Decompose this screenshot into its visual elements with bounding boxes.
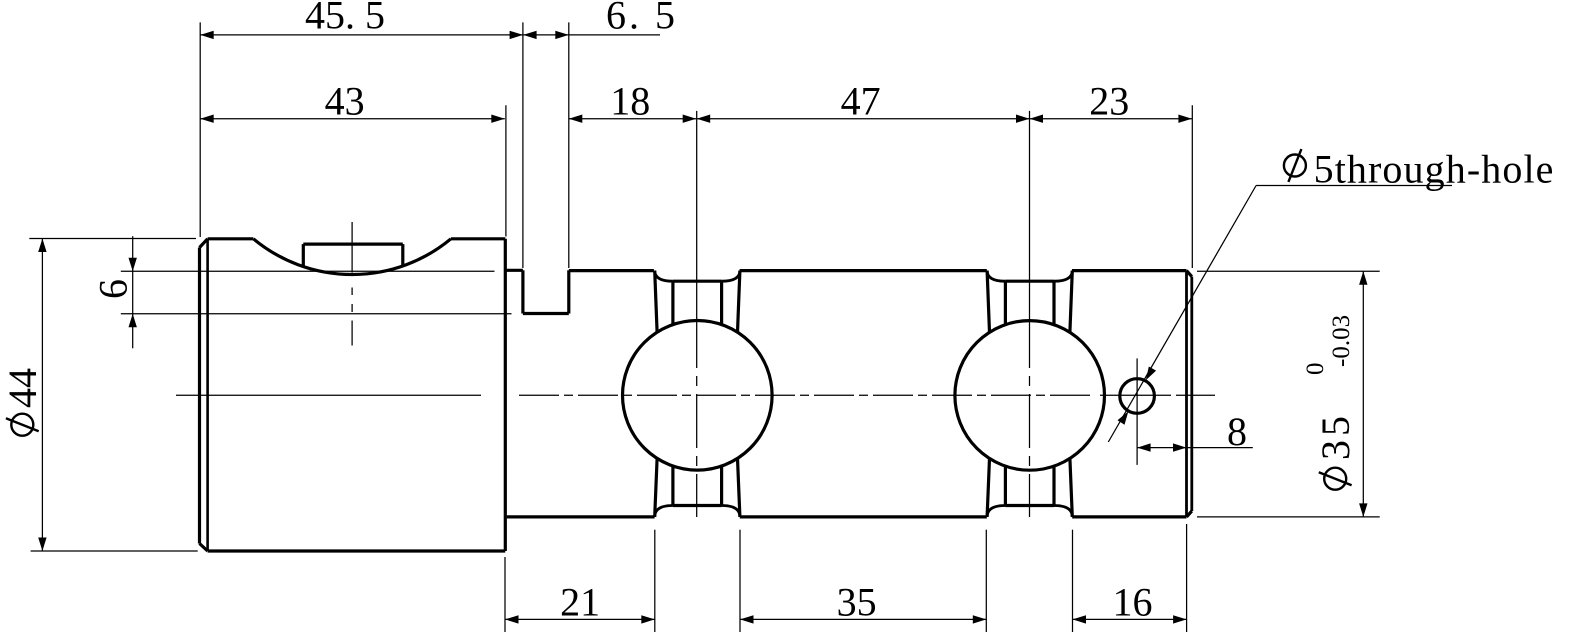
dimension Phi44 (vertical, far left) bbox=[41, 239, 43, 552]
dimension 6 (vertical, left) bbox=[132, 236, 134, 348]
dimension 6.5 bbox=[523, 34, 660, 36]
dimension 43 bbox=[200, 118, 505, 120]
vertical centerline small hole bbox=[1136, 358, 1138, 465]
shaft bottom edge segments bbox=[507, 515, 655, 518]
svg-text:18: 18 bbox=[610, 79, 650, 124]
svg-text:8: 8 bbox=[1227, 409, 1247, 454]
dimension 35 bbox=[740, 618, 986, 620]
extension line x=505.9 (43 right) bbox=[505, 105, 507, 236]
dimension 47 bbox=[697, 118, 1030, 120]
svg-text:21: 21 bbox=[560, 580, 600, 625]
extension line x=740 (35 left) bbox=[739, 530, 741, 632]
hole circle 2 (right big circle) bbox=[955, 321, 1105, 471]
left cylinder top edge with saddle arc bbox=[208, 237, 254, 240]
svg-text:47: 47 bbox=[841, 79, 881, 124]
relief groove above circle 1 bbox=[655, 271, 657, 333]
relief groove below circle 1 bbox=[655, 458, 657, 517]
thin line at y271 across left cylinder (6-dim upper extension) bbox=[121, 270, 495, 272]
dimension 23 bbox=[1030, 118, 1192, 120]
vertical centerline circle 1 bbox=[696, 111, 698, 368]
extension line y=551 (Phi44 bottom) bbox=[31, 550, 198, 552]
label Phi5 through-hole bbox=[1284, 155, 1306, 177]
extension line x=568.8 (6.5 right / 18 left) bbox=[568, 22, 570, 268]
dimension 45.5 bbox=[200, 34, 523, 36]
left cylinder bottom edge bbox=[208, 549, 506, 552]
boss on saddle bbox=[303, 243, 403, 246]
extension line x=1072.5 (16 left) bbox=[1072, 530, 1074, 632]
main horizontal centerline bbox=[176, 394, 481, 396]
svg-text:23: 23 bbox=[1089, 79, 1129, 124]
extension line x=654.8 (21 right) bbox=[654, 530, 656, 632]
relief groove above circle 2 bbox=[987, 271, 989, 333]
relief groove below circle 2 bbox=[987, 458, 989, 517]
extension line x=522.9 (45.5 right / 6.5 left) bbox=[522, 22, 524, 268]
svg-text:43: 43 bbox=[325, 79, 365, 124]
extension line x=986.3 (35 right) bbox=[985, 530, 987, 632]
left cylinder left end face (double line with chamfers) bbox=[198, 248, 201, 544]
svg-text:35: 35 bbox=[837, 580, 877, 625]
dimension 8 bbox=[1137, 447, 1253, 449]
svg-text:16: 16 bbox=[1113, 580, 1153, 625]
dimension Phi35 with tolerance (vertical, right) bbox=[1362, 271, 1364, 517]
vertical centerline left cylinder boss bbox=[351, 222, 353, 273]
svg-text:44: 44 bbox=[0, 368, 45, 408]
dimension 16 bbox=[1073, 618, 1187, 620]
extension line x=200 (45.5/43 left) bbox=[199, 22, 201, 237]
extension line y=271.3 (Phi35 top) bbox=[1197, 270, 1380, 272]
svg-text:6: 6 bbox=[90, 279, 135, 299]
svg-text:6. 5: 6. 5 bbox=[606, 0, 678, 38]
vertical centerline circle 2 bbox=[1029, 111, 1031, 368]
dimension 21 bbox=[505, 618, 655, 620]
hole circle 1 (left big circle) bbox=[623, 321, 773, 471]
svg-text:-0.03: -0.03 bbox=[1328, 315, 1355, 367]
svg-text:45. 5: 45. 5 bbox=[305, 0, 385, 38]
svg-text:35: 35 bbox=[1313, 412, 1358, 460]
small through-hole circle (Phi5) bbox=[1120, 379, 1155, 414]
relief groove 6.5 wide bbox=[505, 269, 523, 272]
leader line to small hole with arrows bbox=[1256, 185, 1452, 187]
extension line x=1192.3 (23 right) bbox=[1191, 105, 1193, 268]
dimension 18 bbox=[569, 118, 696, 120]
extension line y=238.5 (Phi44 top) bbox=[29, 238, 196, 240]
thin line at y313 across left cylinder (6-dim lower extension) bbox=[121, 313, 512, 315]
extension line x=505 (21 left) bbox=[504, 557, 506, 632]
extension line x=1186.6 (16 right) bbox=[1186, 524, 1188, 632]
left cylinder right face bbox=[504, 239, 507, 551]
shaft top edge segments bbox=[569, 269, 654, 272]
shaft right end face (double line with chamfers) bbox=[1185, 271, 1188, 517]
svg-text:5through-hole: 5through-hole bbox=[1314, 147, 1555, 192]
extension line y=516.9 (Phi35 bottom) bbox=[1197, 516, 1380, 518]
svg-text:0: 0 bbox=[1302, 363, 1329, 376]
